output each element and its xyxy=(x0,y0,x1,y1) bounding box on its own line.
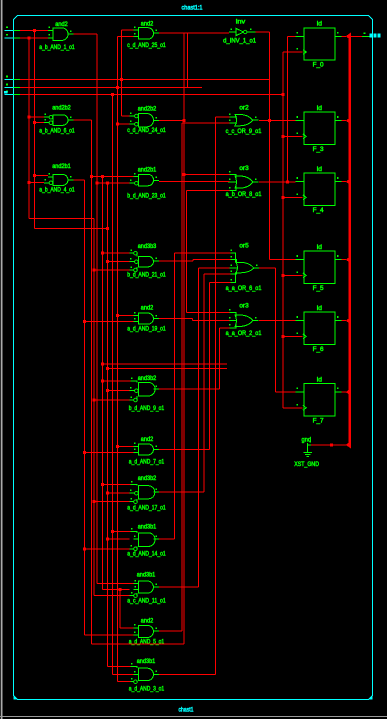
input port 4 xyxy=(5,84,21,88)
trunk mid v107 xyxy=(106,183,108,666)
junction trunk a xyxy=(33,121,36,124)
junction AND_24 out xyxy=(183,119,186,122)
wire to a_c_AND_11 in3 xyxy=(94,595,130,597)
AND gate a_d_AND_3 (and3b1) xyxy=(129,659,165,692)
trunk F_0 D riser xyxy=(287,36,289,182)
junction net b lower xyxy=(93,269,96,272)
junction net b lower xyxy=(93,500,96,503)
junction v107 17 xyxy=(106,492,109,495)
svg-text:F_5: F_5 xyxy=(313,286,325,292)
wire c_d_AND_25 in2 xyxy=(118,36,134,38)
trunk net b xyxy=(28,38,30,219)
window frame left edge xyxy=(0,0,2,719)
AND gate a_c_AND_11 (and3b1) xyxy=(127,572,166,604)
junction rowE v112 xyxy=(111,93,114,96)
svg-text:and3b1: and3b1 xyxy=(137,572,156,578)
trunk mid v102 xyxy=(101,177,103,590)
wire a_d_AND_19 jog xyxy=(191,319,193,321)
wire to a_a_OR_6 in2 xyxy=(193,259,230,261)
junction G trunk xyxy=(282,135,285,138)
svg-text:and2: and2 xyxy=(141,306,154,312)
trunk a_b_AND_4 out xyxy=(84,180,86,635)
input port 1 xyxy=(5,26,21,30)
wire to a_a_OR_2 in2 xyxy=(192,320,229,322)
wire a_c_AND_11 out xyxy=(159,586,199,588)
wire stub v102 east xyxy=(102,363,227,365)
svg-text:gnd: gnd xyxy=(302,437,312,443)
junction v102 stub xyxy=(101,362,104,365)
bus tap arrow 1 xyxy=(346,117,351,125)
svg-text:a_b_AND_4_o1: a_b_AND_4_o1 xyxy=(39,188,75,194)
wire to b_d_AND_21 in3 xyxy=(94,269,130,271)
OR gate c_c_OR_9 (or2) xyxy=(226,105,262,135)
svg-text:a_d_AND_7_o1: a_d_AND_7_o1 xyxy=(129,459,165,465)
wire to b_d_AND_9 in3 xyxy=(94,399,130,401)
wire a_d_AND_3 in2 xyxy=(113,673,134,675)
trunk a_b_AND_1 out xyxy=(96,34,98,583)
svg-text:and2b2: and2b2 xyxy=(52,106,71,112)
junction port1 trunk xyxy=(33,29,36,32)
wire a_d_AND_7 in1 xyxy=(118,445,134,447)
svg-text:F_7: F_7 xyxy=(313,419,325,425)
svg-text:and3b1: and3b1 xyxy=(137,659,156,665)
wire net b crossover xyxy=(29,217,94,219)
wire to F_6 G xyxy=(283,335,303,337)
wire to b_d_AND_23 in2 xyxy=(97,182,130,184)
wire to a_d_AND_5 in2 xyxy=(85,634,134,636)
wire a_d_AND_5 rise xyxy=(181,123,183,631)
svg-text:F_3: F_3 xyxy=(313,147,325,153)
wire to a_a_OR_6 in1 xyxy=(174,252,230,254)
junction G rowE xyxy=(282,93,285,96)
AND gate c_d_AND_25 (and2) xyxy=(127,21,166,49)
svg-text:b_d_AND_9_o1: b_d_AND_9_o1 xyxy=(129,406,165,412)
svg-text:or3: or3 xyxy=(239,166,249,172)
svg-text:and3b1: and3b1 xyxy=(138,525,157,531)
bus tap arrow 4 xyxy=(346,317,351,325)
bus tap arrow 5 xyxy=(346,388,351,396)
bus tap arrow 3 xyxy=(346,256,351,264)
svg-text:or2: or2 xyxy=(239,105,249,111)
wire to a_b_AND_6 in1 xyxy=(29,116,44,118)
junction v102 21 xyxy=(101,252,104,255)
trunk net a xyxy=(34,30,36,228)
junction v107 21 xyxy=(106,260,109,263)
wire b_d_AND_23 out to a_b_OR_8 in2 xyxy=(159,181,230,183)
svg-text:and2b1: and2b1 xyxy=(52,164,71,170)
junction v107 start xyxy=(106,182,109,185)
wire trunk92 bottom xyxy=(91,643,184,645)
AND gate b_d_AND_9 (and3b2) xyxy=(129,376,165,412)
latch F_0 (ld) xyxy=(296,22,342,69)
wire to c_c_OR_9 in1 xyxy=(216,116,230,118)
AND gate a_d_AND_19 (and2) xyxy=(127,306,166,333)
junction v102 9 xyxy=(101,380,104,383)
wire a_d_AND_17 out xyxy=(159,491,204,493)
wire F1 out xyxy=(342,120,347,122)
wire to a_b_OR_8 in1 xyxy=(184,174,229,176)
junction net b lower xyxy=(93,399,96,402)
wire to a_a_OR_6 in4 xyxy=(204,273,230,275)
OR gate a_a_OR_6 (or5) xyxy=(226,243,262,292)
wire a_d_AND_17 rise xyxy=(203,274,205,492)
svg-text:a_a_OR_6_o1: a_a_OR_6_o1 xyxy=(226,286,262,292)
junction v112 14 xyxy=(111,530,114,533)
wire to a_d_AND_17 in3 xyxy=(94,501,130,503)
wire to a_a_OR_2 in3 xyxy=(219,327,229,329)
svg-text:c_c_OR_9_o1: c_c_OR_9_o1 xyxy=(226,129,262,135)
trunk c_d_AND_24 or8 xyxy=(183,33,185,644)
wire to F_5 D xyxy=(270,259,296,261)
junction G trunk xyxy=(282,335,285,338)
svg-text:d_INV_1_o1: d_INV_1_o1 xyxy=(223,38,257,44)
wire c_d_AND_24 in1 xyxy=(122,115,130,117)
wire F3 out xyxy=(342,259,347,261)
junction gnd wire xyxy=(330,443,333,446)
junction trunk b xyxy=(28,181,31,184)
svg-text:and2b1: and2b1 xyxy=(138,167,157,173)
wire a_d_AND_3 in3 xyxy=(118,681,131,683)
wire to a_b_OR_8 in3 xyxy=(187,189,230,191)
svg-text:a_d_AND_14_o1: a_d_AND_14_o1 xyxy=(127,552,166,558)
svg-text:or5: or5 xyxy=(239,243,249,249)
sheet border corner fill bl xyxy=(14,696,18,700)
junction rowD v117 xyxy=(116,86,119,89)
wire c_d_AND_25 out to inv xyxy=(159,32,229,34)
bus gnd arrow xyxy=(346,441,351,448)
AND gate b_d_AND_23 (and2b1) xyxy=(127,167,166,199)
wire a_d_AND_5 out xyxy=(159,630,182,632)
wire port2 to a_b_AND_1 in2 xyxy=(20,37,48,39)
wire to a_b_AND_4 in1 xyxy=(35,175,48,177)
svg-text:ld: ld xyxy=(317,306,322,312)
svg-text:and2: and2 xyxy=(141,437,154,443)
wire b_d_AND_9 in1 xyxy=(102,380,130,382)
wire to F_7 G xyxy=(283,407,303,409)
svg-text:b_d_AND_23_o1: b_d_AND_23_o1 xyxy=(127,194,166,200)
svg-text:a_b_AND_1_o1: a_b_AND_1_o1 xyxy=(39,45,75,51)
sheet border corner fill br xyxy=(369,696,373,700)
svg-text:a_b_AND_6_o1: a_b_AND_6_o1 xyxy=(39,129,75,135)
svg-text:and3b2: and3b2 xyxy=(138,376,157,382)
svg-text:and2b2: and2b2 xyxy=(138,106,157,112)
junction v107 14 xyxy=(106,538,109,541)
junction v117 7 xyxy=(116,445,119,448)
wire a_c_AND_11 in2 xyxy=(102,588,129,590)
wire a_d_AND_14 in2 xyxy=(107,538,129,540)
latch F_4 (ld) xyxy=(296,167,342,214)
wire a_d_AND_3 rise xyxy=(215,117,217,674)
wire to a_b_AND_6 in2 xyxy=(35,122,44,124)
trunk net b lower xyxy=(93,218,95,595)
wire riser AND_5 in1 xyxy=(119,589,121,627)
wire bus to output port xyxy=(351,35,362,37)
wire a_d_AND_7 rise xyxy=(209,283,211,450)
wire a_d_AND_19 out xyxy=(159,318,192,320)
junction v117 24in2 xyxy=(116,123,119,126)
latch F_5 (ld) xyxy=(296,245,342,292)
junction v107 9 xyxy=(106,389,109,392)
wire F2 out xyxy=(342,181,347,183)
OR gate a_a_OR_2 (or3) xyxy=(226,304,262,337)
svg-text:F_6: F_6 xyxy=(313,347,325,353)
trunk mid v112 row E xyxy=(112,95,114,675)
AND gate a_d_AND_17 (and3b2) xyxy=(127,476,166,511)
junction port2 trunk xyxy=(28,36,31,39)
trunk a_b_AND_6 out xyxy=(90,120,92,644)
wire to F_0 D xyxy=(288,35,296,37)
wire a_d_AND_14 out xyxy=(159,538,174,540)
junction AND_4 net xyxy=(83,320,86,323)
wire or8in3 or2in1 net xyxy=(186,190,188,312)
junction riser AND_5 xyxy=(118,588,121,591)
wire b_d_AND_9 out xyxy=(159,388,219,390)
svg-text:c_d_AND_25_o1: c_d_AND_25_o1 xyxy=(127,43,166,49)
svg-text:ld: ld xyxy=(317,245,322,251)
AND gate a_d_AND_5 (and2) xyxy=(129,618,165,645)
wire a_a_OR_6 drop xyxy=(275,268,277,392)
junction v102 17 xyxy=(101,483,104,486)
wire gnd to bus xyxy=(311,444,348,446)
svg-text:ld: ld xyxy=(317,377,322,383)
svg-text:ld: ld xyxy=(317,167,322,173)
wire a_d_AND_17 in2 xyxy=(107,492,129,494)
latch F_3 (ld) xyxy=(296,106,342,153)
ground XST_GND xyxy=(294,437,319,468)
wire a_b_OR_8 out to F_4 D xyxy=(259,181,296,183)
wire to a_d_AND_14 in3 xyxy=(85,548,130,550)
svg-text:and2: and2 xyxy=(55,22,68,28)
wire a_d_AND_17 in1 xyxy=(102,484,130,486)
wire a_b_AND_1 out xyxy=(74,33,98,35)
wire port3 row C xyxy=(20,79,270,81)
wire a_d_AND_19 in1 xyxy=(118,315,134,317)
wire to a_a_OR_6 in5 xyxy=(210,282,231,284)
svg-text:a_d_AND_17_o1: a_d_AND_17_o1 xyxy=(127,506,166,512)
sheet title top xyxy=(182,5,204,11)
AND gate c_d_AND_24 (and2b2) xyxy=(127,106,166,134)
OR gate a_b_OR_8 (or3) xyxy=(226,166,262,198)
wire a_b_AND_4 out xyxy=(74,179,85,181)
sheet title bottom xyxy=(179,707,195,713)
wire a_a_OR_2 out to F_6 D xyxy=(259,320,296,322)
wire to F_3 G xyxy=(283,135,303,137)
bus tap arrow 2 xyxy=(346,178,351,186)
svg-text:chast1: chast1 xyxy=(179,707,195,713)
wire F4 out xyxy=(342,320,347,322)
latch F_7 (ld) xyxy=(296,377,342,424)
junction G trunk xyxy=(282,196,285,199)
wire to a_c_AND_11 in1 xyxy=(97,582,133,584)
wire to a_a_OR_6 mid xyxy=(199,267,230,269)
wire a_a_OR_6 out xyxy=(259,267,276,269)
wire port5 row E xyxy=(20,94,283,96)
svg-text:c_d_AND_24_o1: c_d_AND_24_o1 xyxy=(127,128,166,134)
wire b_d_AND_21 out xyxy=(159,260,193,262)
wire c_c_OR_9 out to F_3 D xyxy=(259,119,296,121)
junction rowC v121 xyxy=(120,78,123,81)
wire a_c_AND_11 rise xyxy=(198,268,200,587)
wire to a_d_AND_5 in1 xyxy=(120,627,134,629)
svg-text:a_b_OR_8_o1: a_b_OR_8_o1 xyxy=(226,192,262,198)
trunk mid v121 net c xyxy=(121,30,123,116)
junction or8 in1 xyxy=(183,173,186,176)
wire a_d_AND_14 rise xyxy=(173,253,175,539)
bus tap arrow 0 xyxy=(346,33,351,41)
svg-text:inv: inv xyxy=(236,20,246,26)
junction trunk b xyxy=(28,116,31,119)
svg-text:ld: ld xyxy=(317,22,322,28)
wire b_d_AND_21 in1 xyxy=(102,252,129,254)
svg-text:chast1:1: chast1:1 xyxy=(182,5,204,11)
svg-text:or3: or3 xyxy=(239,304,249,310)
wire to F_5 G xyxy=(283,274,303,276)
junction v107 stub xyxy=(106,367,109,370)
wire to b_d_AND_23 in1 xyxy=(91,176,133,178)
wire a_d_AND_7 out xyxy=(159,448,210,450)
wire F0 out xyxy=(342,35,347,37)
AND gate a_d_AND_14 (and3b1) xyxy=(127,525,166,558)
wire to F_0 G xyxy=(283,51,303,53)
wire c_d_AND_25 in1 xyxy=(122,29,134,31)
wire stub v107 east xyxy=(107,368,227,370)
wire to F_4 G xyxy=(283,196,303,198)
svg-text:a_d_AND_5_o1: a_d_AND_5_o1 xyxy=(129,640,165,646)
junction AND_6 net 23in1 xyxy=(90,175,93,178)
wire port4 row D xyxy=(20,87,202,89)
trunk gate enable xyxy=(282,52,284,408)
AND gate a_d_AND_7 (and2) xyxy=(129,437,165,465)
wire b_d_AND_9 rise xyxy=(218,328,220,389)
wire port1 to a_b_AND_1 in1 xyxy=(20,29,48,31)
wire b_d_AND_9 in2 xyxy=(107,390,129,392)
svg-text:b_d_AND_21_o1: b_d_AND_21_o1 xyxy=(127,273,166,279)
junction inv net xyxy=(268,119,271,122)
wire to F_7 D xyxy=(276,391,296,393)
AND gate a_b_AND_6 (and2b2) xyxy=(39,106,75,135)
wire c_d_AND_24 in2 xyxy=(118,123,130,125)
svg-text:ld: ld xyxy=(317,106,322,112)
inverter d_INV_1 (inv) xyxy=(223,20,257,45)
wire to a_d_AND_19 in2 xyxy=(85,321,134,323)
AND gate a_b_AND_1 (and2) xyxy=(39,22,75,51)
AND gate b_d_AND_21 (and3b3) xyxy=(127,244,166,279)
wire a_d_AND_3 out xyxy=(159,673,216,675)
junction AND_4 net xyxy=(83,451,86,454)
svg-text:and2: and2 xyxy=(141,618,154,624)
output port right xyxy=(362,32,381,37)
junction OR8 F0 riser xyxy=(286,180,289,183)
svg-text:F_0: F_0 xyxy=(313,63,325,69)
junction v102 start xyxy=(101,175,104,178)
window frame bottom edge xyxy=(0,716,387,717)
output bus xyxy=(348,35,350,445)
wire a_d_AND_3 in1 xyxy=(107,666,130,668)
junction AND_1 net 23in2 xyxy=(96,182,99,185)
svg-text:a_d_AND_19_o1: a_d_AND_19_o1 xyxy=(127,327,166,333)
svg-text:a_d_AND_3_o1: a_d_AND_3_o1 xyxy=(129,687,165,693)
wire c_d_AND_24 out xyxy=(159,119,184,121)
wire to a_a_OR_2 in1 xyxy=(187,312,230,314)
trunk mid v117 net d xyxy=(117,37,119,682)
svg-text:F_4: F_4 xyxy=(313,208,325,214)
junction G trunk xyxy=(282,274,285,277)
trunk inv net xyxy=(269,32,271,260)
input port 2 xyxy=(5,34,21,38)
svg-text:and2: and2 xyxy=(141,21,154,27)
svg-text:a_a_OR_2_o1: a_a_OR_2_o1 xyxy=(226,331,262,337)
wire to a_b_AND_4 in2 xyxy=(29,181,44,183)
wire b_d_AND_21 in2 xyxy=(107,261,129,263)
wire net a crossover xyxy=(35,228,108,230)
wire F5 out xyxy=(342,391,347,393)
wire riser aux xyxy=(187,33,189,88)
junction AND_4 net xyxy=(83,547,86,550)
wire a_d_AND_14 in1 xyxy=(113,531,131,533)
input port 5 xyxy=(4,91,20,95)
svg-text:and3b2: and3b2 xyxy=(138,476,157,482)
wire a_b_AND_6 out xyxy=(74,119,92,121)
junction v117 19 xyxy=(116,314,119,317)
AND gate a_b_AND_4 (and2b1) xyxy=(39,164,75,194)
junction net a v107 xyxy=(106,227,109,230)
svg-text:and3b3: and3b3 xyxy=(138,244,157,250)
junction trunk a xyxy=(33,174,36,177)
wire b_d_AND_21 jog xyxy=(192,260,194,262)
wire inv out xyxy=(256,31,270,33)
latch F_6 (ld) xyxy=(296,306,342,353)
wire to c_c_OR_9 in2 xyxy=(182,122,230,124)
input port 3 xyxy=(5,76,21,80)
svg-text:a_c_AND_11_o1: a_c_AND_11_o1 xyxy=(127,599,166,605)
wire to a_d_AND_7 in2 xyxy=(85,451,134,453)
svg-text:XST_GND: XST_GND xyxy=(294,462,319,468)
